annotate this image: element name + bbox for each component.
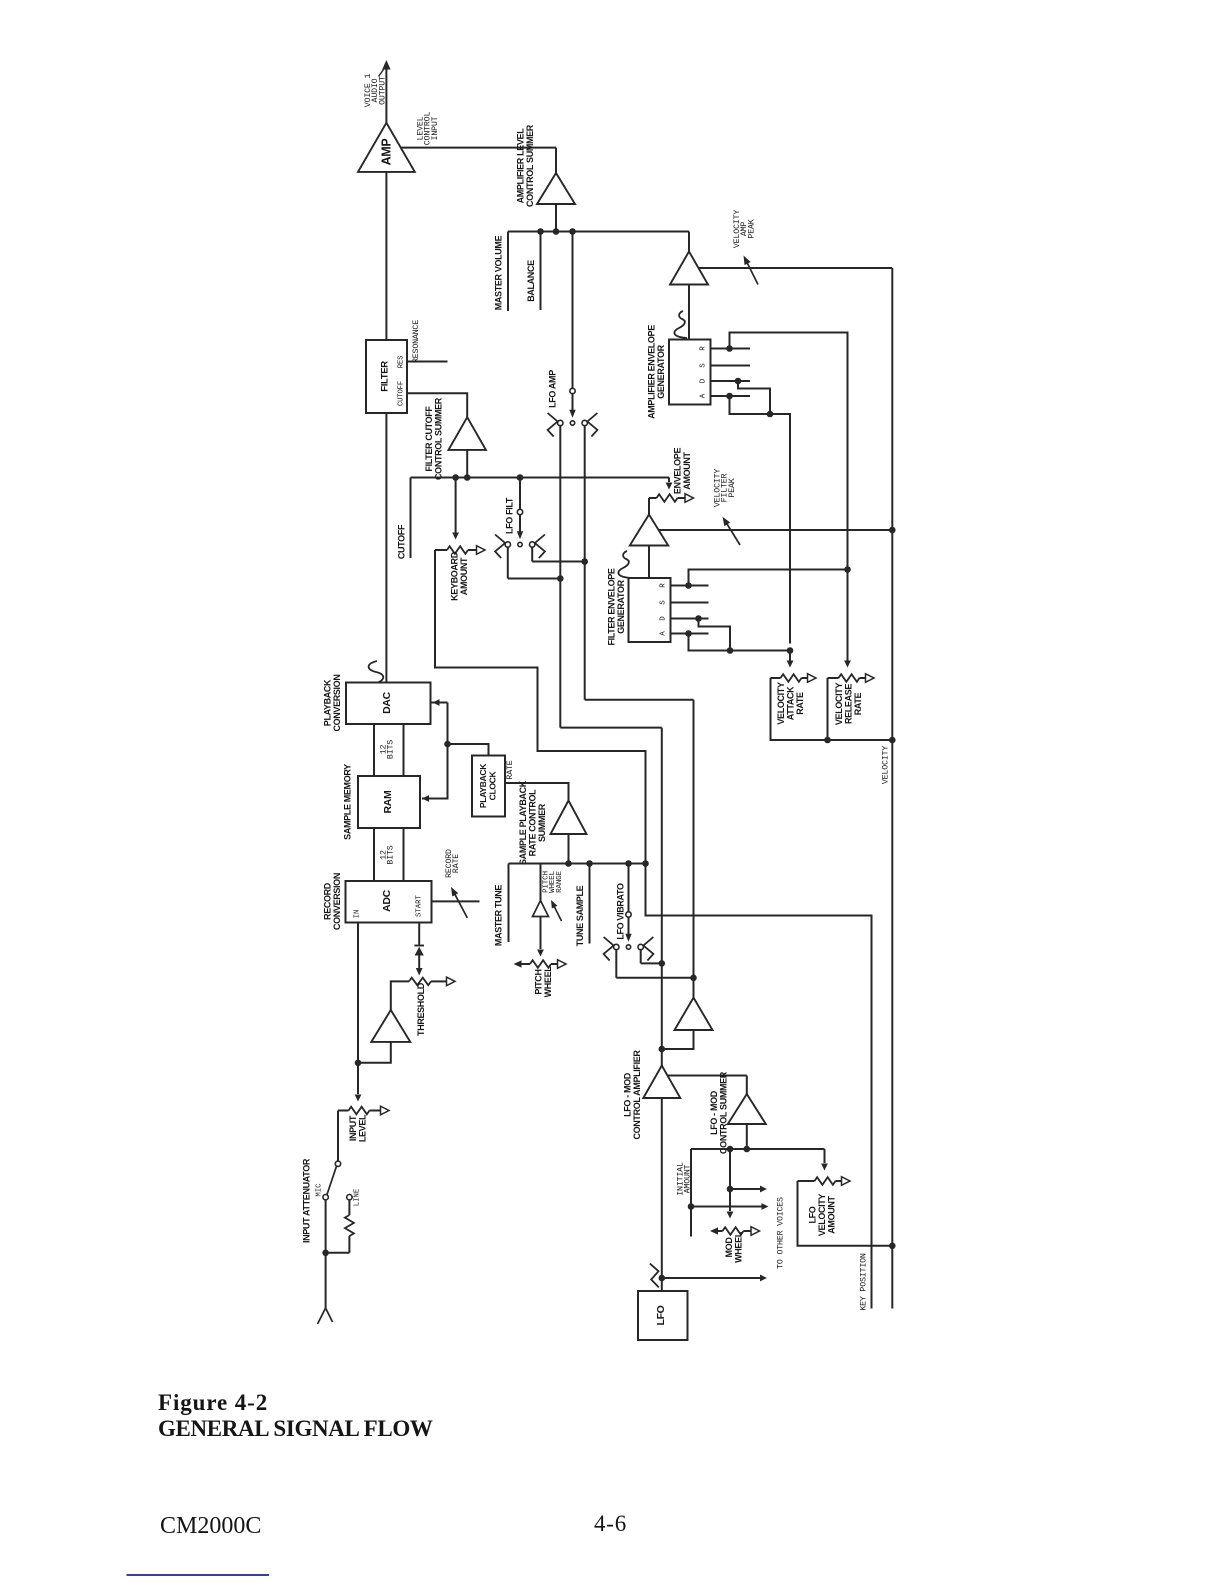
- svg-text:PLAYBACK: PLAYBACK: [323, 679, 333, 726]
- svg-text:LEVEL: LEVEL: [357, 1114, 367, 1142]
- svg-text:INPUT ATTENUATOR: INPUT ATTENUATOR: [302, 1158, 312, 1243]
- svg-text:VELOCITY: VELOCITY: [817, 1194, 827, 1237]
- svg-text:LINE: LINE: [354, 1189, 362, 1207]
- svg-text:RANGE: RANGE: [556, 870, 564, 892]
- svg-text:BITS: BITS: [387, 740, 396, 759]
- svg-text:4-6: 4-6: [594, 1511, 627, 1536]
- svg-text:START: START: [416, 894, 424, 917]
- svg-text:CUTOFF: CUTOFF: [398, 381, 406, 406]
- svg-text:MOD: MOD: [724, 1237, 734, 1258]
- svg-text:Figure 4-2: Figure 4-2: [158, 1390, 268, 1415]
- svg-text:AMOUNT: AMOUNT: [684, 1164, 693, 1193]
- svg-text:RESONANCE: RESONANCE: [412, 320, 421, 363]
- svg-text:SAMPLE PLAYBACK: SAMPLE PLAYBACK: [518, 780, 528, 865]
- svg-text:PLAYBACK: PLAYBACK: [478, 763, 488, 808]
- svg-text:IN: IN: [354, 910, 362, 919]
- svg-text:A: A: [700, 393, 708, 398]
- svg-text:PITCH: PITCH: [534, 969, 544, 994]
- svg-text:RES: RES: [398, 355, 406, 368]
- svg-text:TO OTHER VOICES: TO OTHER VOICES: [777, 1197, 786, 1269]
- svg-text:GENERATOR: GENERATOR: [616, 579, 626, 633]
- svg-text:WHEEL: WHEEL: [734, 1231, 744, 1263]
- svg-text:CONTROL SUMMER: CONTROL SUMMER: [525, 124, 535, 207]
- svg-text:LFO: LFO: [808, 1206, 818, 1223]
- svg-text:CLOCK: CLOCK: [488, 770, 498, 800]
- svg-text:AMOUNT: AMOUNT: [459, 557, 469, 595]
- svg-text:PEAK: PEAK: [747, 219, 756, 238]
- svg-text:DAC: DAC: [381, 691, 393, 713]
- svg-text:RECORD: RECORD: [323, 882, 333, 920]
- svg-text:KEYBOARD: KEYBOARD: [450, 551, 460, 601]
- svg-text:A: A: [660, 631, 668, 636]
- svg-text:AMPLIFIER LEVEL: AMPLIFIER LEVEL: [516, 128, 526, 204]
- svg-text:LFO - MOD: LFO - MOD: [709, 1090, 719, 1135]
- svg-text:ENVELOPE: ENVELOPE: [673, 448, 683, 495]
- svg-text:OUTPUT: OUTPUT: [378, 76, 387, 105]
- svg-text:RELEASE: RELEASE: [844, 684, 854, 724]
- svg-text:LFO AMP: LFO AMP: [548, 370, 558, 408]
- svg-text:THRESHOLD: THRESHOLD: [416, 982, 426, 1036]
- svg-text:CONTROL SUMMER: CONTROL SUMMER: [433, 397, 443, 480]
- svg-text:RATE CONTROL: RATE CONTROL: [528, 789, 538, 856]
- svg-text:CONTROL AMPLIFIER: CONTROL AMPLIFIER: [632, 1050, 642, 1140]
- svg-text:CONTROL SUMMER: CONTROL SUMMER: [718, 1071, 728, 1154]
- svg-text:BITS: BITS: [387, 845, 396, 864]
- svg-text:BALANCE: BALANCE: [526, 260, 536, 302]
- svg-text:S: S: [660, 600, 668, 605]
- svg-text:CUTOFF: CUTOFF: [397, 524, 407, 559]
- svg-text:AMPLIFIER ENVELOPE: AMPLIFIER ENVELOPE: [647, 325, 657, 419]
- svg-text:AMP: AMP: [379, 139, 393, 166]
- svg-text:TUNE SAMPLE: TUNE SAMPLE: [575, 885, 585, 946]
- svg-text:FILTER ENVELOPE: FILTER ENVELOPE: [607, 568, 617, 645]
- svg-text:R: R: [700, 346, 708, 351]
- svg-text:S: S: [700, 363, 708, 368]
- svg-text:VELOCITY: VELOCITY: [834, 683, 844, 726]
- svg-text:LFO - MOD: LFO - MOD: [622, 1072, 632, 1117]
- svg-text:FILTER CUTOFF: FILTER CUTOFF: [424, 406, 434, 472]
- svg-text:WHEEL: WHEEL: [543, 966, 553, 998]
- svg-text:D: D: [700, 378, 708, 383]
- svg-text:VELOCITY: VELOCITY: [776, 682, 786, 725]
- svg-text:GENERAL SIGNAL FLOW: GENERAL SIGNAL FLOW: [158, 1416, 433, 1441]
- svg-text:ATTACK: ATTACK: [786, 686, 796, 720]
- svg-text:INPUT: INPUT: [348, 1115, 358, 1141]
- svg-text:VELOCITY: VELOCITY: [882, 746, 891, 784]
- svg-text:RATE: RATE: [853, 692, 863, 715]
- svg-text:SAMPLE MEMORY: SAMPLE MEMORY: [343, 764, 353, 840]
- svg-text:LFO VIBRATO: LFO VIBRATO: [616, 883, 626, 940]
- svg-text:RATE: RATE: [506, 760, 515, 779]
- svg-text:R: R: [660, 583, 668, 588]
- svg-text:LFO: LFO: [655, 1305, 667, 1325]
- svg-text:AMOUNT: AMOUNT: [827, 1195, 837, 1233]
- svg-text:SUMMER: SUMMER: [537, 803, 547, 842]
- svg-text:KEY POSITION: KEY POSITION: [860, 1253, 869, 1311]
- svg-text:FILTER: FILTER: [380, 361, 391, 392]
- svg-text:AMOUNT: AMOUNT: [682, 451, 692, 489]
- svg-text:MASTER TUNE: MASTER TUNE: [494, 885, 504, 946]
- svg-text:RATE: RATE: [452, 854, 461, 873]
- svg-text:LFO FILT: LFO FILT: [505, 497, 515, 534]
- svg-text:PEAK: PEAK: [728, 478, 737, 497]
- svg-text:CM2000C: CM2000C: [160, 1513, 261, 1539]
- svg-text:GENERATOR: GENERATOR: [656, 344, 666, 398]
- svg-text:MASTER VOLUME: MASTER VOLUME: [494, 235, 504, 310]
- svg-text:D: D: [660, 616, 668, 621]
- svg-text:ADC: ADC: [381, 889, 393, 911]
- svg-text:RATE: RATE: [795, 692, 805, 715]
- svg-text:RAM: RAM: [382, 790, 394, 813]
- svg-text:INPUT: INPUT: [431, 116, 440, 140]
- svg-text:MIC: MIC: [316, 1183, 324, 1197]
- svg-text:CONVERSION: CONVERSION: [332, 674, 342, 731]
- svg-text:CONVERSION: CONVERSION: [332, 873, 342, 930]
